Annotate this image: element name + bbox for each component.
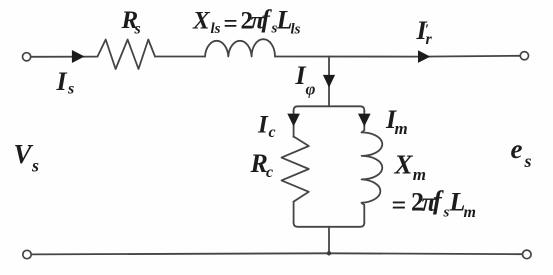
svg-text:s: s: [134, 21, 141, 38]
svg-text:s: s: [524, 151, 532, 171]
svg-text:f: f: [433, 186, 444, 215]
svg-text:I: I: [56, 67, 68, 96]
terminal top-left: [23, 53, 31, 61]
terminal bottom-right: [523, 250, 532, 259]
inductor L2 (Xm) three humps: [362, 132, 383, 202]
top rail of parallel branch: [294, 106, 365, 112]
wire top right segment: [275, 55, 520, 58]
terminal bottom-left: [23, 250, 31, 258]
arrow Ir' on top wire: [418, 50, 430, 63]
svg-text:ls: ls: [211, 21, 221, 37]
svg-text:φ: φ: [306, 80, 316, 99]
wire right branch upper: [362, 111, 365, 132]
svg-text:ls: ls: [291, 22, 301, 38]
label Xm: [394, 150, 427, 184]
arrow Im on right branch: [358, 114, 371, 127]
svg-text:I: I: [257, 112, 269, 139]
svg-text:V: V: [14, 139, 34, 169]
label es: [511, 134, 532, 171]
label Ir': [416, 16, 433, 48]
resistor R2 (Rc) vertical zigzag: [282, 137, 309, 202]
stem to bottom wire: [328, 227, 330, 254]
wire left branch lower: [293, 202, 295, 223]
svg-text:c: c: [266, 164, 273, 181]
svg-text:e: e: [511, 134, 523, 164]
svg-text:m: m: [413, 165, 426, 184]
resistor R1 (Rs) zigzag: [98, 40, 156, 70]
svg-text:=: =: [224, 10, 238, 37]
label = 2*pi*fs*Lm: [392, 186, 476, 221]
svg-text:c: c: [269, 124, 276, 141]
arrow Ic on left branch: [287, 114, 300, 127]
inductor L1 (Xls) three humps: [205, 39, 275, 56]
svg-text:=: =: [392, 190, 407, 219]
svg-text:s: s: [67, 80, 74, 97]
label Xls = 2*pi*fs*Lls: [192, 6, 301, 38]
arrow Iphi on stem: [323, 75, 335, 88]
junction dot bottom: [327, 251, 331, 255]
wire between Rs and Lls: [155, 56, 205, 58]
bottom rail of parallel branch: [294, 222, 365, 227]
wire top left segment: [31, 56, 98, 58]
wire right branch lower: [362, 203, 365, 223]
svg-text:X: X: [192, 8, 211, 35]
svg-text:X: X: [394, 150, 414, 180]
svg-text:r: r: [426, 31, 433, 48]
label Rc: [250, 149, 274, 181]
node A junction stem: [328, 57, 330, 107]
svg-text:s: s: [443, 204, 450, 220]
svg-text:s: s: [31, 155, 39, 175]
arrow Is on top wire: [72, 50, 85, 63]
terminal top-right: [520, 52, 528, 60]
label Iphi: [295, 61, 316, 98]
svg-text:m: m: [395, 119, 408, 138]
bottom wire: [31, 253, 522, 254]
svg-text:m: m: [464, 204, 476, 221]
wire left branch upper: [293, 111, 295, 137]
label Ic: [257, 112, 276, 141]
label Rs: [121, 7, 141, 38]
label Im: [385, 105, 408, 138]
label Is: [56, 67, 75, 97]
label Vs: [14, 139, 40, 175]
